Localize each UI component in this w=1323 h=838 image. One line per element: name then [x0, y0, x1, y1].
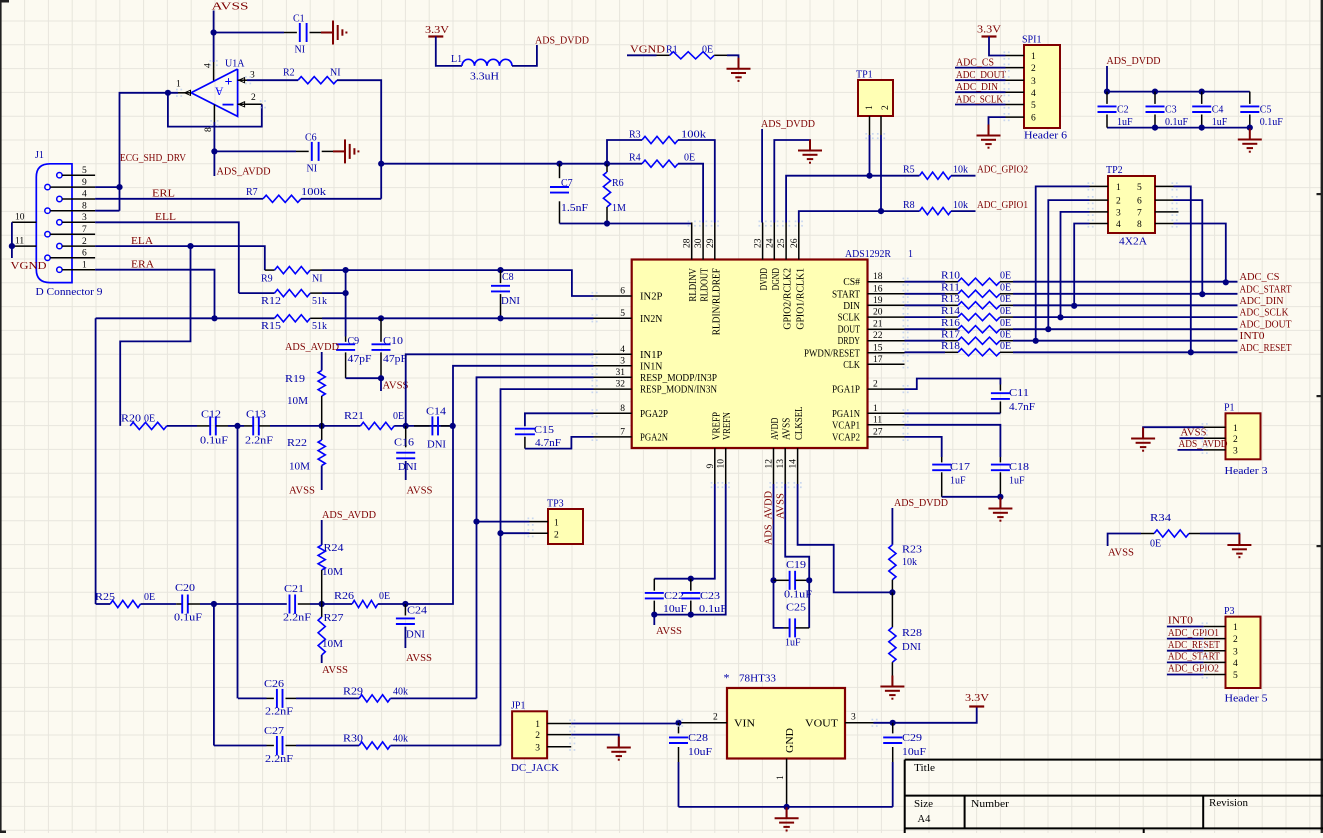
- vertical R15-left to R25: [95, 318, 97, 604]
- junction TP1 pin1: [866, 173, 872, 179]
- SPI1 pin 5: [1006, 104, 1025, 106]
- resistor R1 (0E to ground): [657, 54, 670, 56]
- junction C24: [402, 601, 408, 607]
- P1 pin 3: [1204, 449, 1226, 451]
- op-amp U1A: [191, 69, 238, 116]
- wire R4 to IC pin 30: [678, 164, 703, 223]
- J1 pin 4: [57, 196, 62, 201]
- svg-text:1: 1: [554, 519, 559, 529]
- svg-text:10uF: 10uF: [663, 604, 688, 615]
- svg-text:5: 5: [1233, 671, 1238, 681]
- svg-text:ADC_GPIO2: ADC_GPIO2: [1168, 664, 1219, 675]
- wire R3 to IC pin 29: [678, 140, 715, 223]
- wire pin8 to ADS_AVDD: [213, 122, 215, 176]
- svg-text:ADC_CS: ADC_CS: [1240, 272, 1280, 283]
- wire op-amp +in to R2: [247, 79, 298, 81]
- svg-text:AVSS: AVSS: [322, 665, 348, 676]
- TP2 pin 5: [1155, 185, 1174, 187]
- svg-text:31: 31: [616, 368, 626, 378]
- svg-text:2: 2: [1233, 435, 1238, 445]
- svg-text:START: START: [832, 289, 860, 300]
- svg-text:R26: R26: [334, 591, 354, 602]
- resistor R28 vertical: [891, 592, 893, 627]
- junction R6 bottom: [604, 220, 610, 226]
- svg-text:INT0: INT0: [1240, 331, 1265, 342]
- wire IN1N row: [453, 366, 594, 426]
- wire AVSS to P1 pin2: [1180, 437, 1204, 439]
- svg-text:R14: R14: [941, 306, 960, 317]
- svg-text:DOUT: DOUT: [838, 325, 860, 336]
- svg-text:P3: P3: [1224, 606, 1235, 617]
- svg-text:R18: R18: [941, 341, 960, 352]
- svg-text:0E: 0E: [1000, 271, 1011, 282]
- svg-text:PWDN/RESET: PWDN/RESET: [804, 348, 860, 359]
- svg-text:R19: R19: [285, 374, 305, 385]
- IC pin 8 PGA2P: [594, 412, 632, 414]
- svg-text:40k: 40k: [393, 687, 408, 698]
- wire C26 to R29: [296, 697, 359, 699]
- vertical branch to C27 row: [213, 604, 215, 746]
- svg-text:0E: 0E: [1000, 283, 1011, 294]
- J1 pin 1: [57, 267, 62, 272]
- svg-text:7: 7: [620, 427, 625, 437]
- svg-text:PGA2P: PGA2P: [640, 409, 668, 420]
- capacitor C28: [678, 723, 680, 734]
- svg-text:PGA2N: PGA2N: [640, 432, 668, 443]
- svg-text:ADC_GPIO1: ADC_GPIO1: [1168, 628, 1219, 639]
- wire ADC_START to P3 pin 4: [1167, 661, 1204, 663]
- svg-text:4: 4: [1116, 220, 1121, 230]
- capacitor C17: [941, 457, 943, 462]
- svg-text:3: 3: [1233, 647, 1238, 657]
- svg-text:ADC_CS: ADC_CS: [956, 58, 994, 69]
- svg-text:R22: R22: [287, 438, 307, 449]
- wire PGA2P to C15: [525, 413, 594, 426]
- svg-text:ADS1292R: ADS1292R: [845, 249, 891, 260]
- svg-text:5: 5: [82, 166, 87, 176]
- JP1 pin 2: [547, 734, 571, 736]
- capacitor C7: [559, 164, 561, 179]
- P3 pin 3: [1204, 650, 1226, 652]
- svg-text:0.1uF: 0.1uF: [784, 590, 813, 601]
- svg-text:22: 22: [873, 331, 883, 341]
- wire P1 pin1 to ground: [1143, 427, 1204, 438]
- svg-text:4: 4: [620, 345, 625, 355]
- wire ERA J1 pin1 to R15 line: [95, 270, 214, 319]
- JP1 pin 3: [547, 746, 571, 748]
- J1 pin 2: [57, 243, 62, 248]
- svg-text:1: 1: [1116, 183, 1121, 193]
- J1 pin 11: [12, 245, 36, 247]
- svg-text:AVSS: AVSS: [782, 418, 793, 440]
- svg-text:0E: 0E: [1000, 330, 1011, 341]
- junction ERA at R15 line: [211, 315, 217, 321]
- svg-text:SCLK: SCLK: [838, 313, 861, 324]
- connector J1 (D Connector 9): [36, 164, 72, 283]
- svg-text:2: 2: [82, 237, 87, 247]
- wire R4 row: [607, 163, 642, 165]
- resistor R30: [359, 742, 390, 749]
- svg-text:47pF: 47pF: [348, 354, 373, 365]
- wire ADC_DIN row: [1013, 304, 1238, 306]
- wire R1 to ground: [727, 55, 739, 68]
- svg-text:AVSS: AVSS: [212, 2, 249, 13]
- wire ADC_RESET to P3 pin 3: [1167, 650, 1204, 652]
- junction C18 ground: [997, 494, 1003, 500]
- IC pin 25 GPIO2/RCLK2: [785, 223, 787, 260]
- P3 pin 2: [1204, 638, 1226, 640]
- svg-text:ADC_DIN: ADC_DIN: [956, 82, 998, 93]
- svg-text:R25: R25: [95, 592, 115, 603]
- junction AVSS/C1: [211, 29, 217, 35]
- IC pin 9 VREFP: [714, 448, 716, 484]
- svg-text:2: 2: [535, 731, 540, 741]
- pin hotspot markers: [592, 292, 594, 294]
- junction R15/C10: [378, 315, 384, 321]
- wire gnd rail stem: [786, 807, 788, 818]
- svg-text:P1: P1: [1224, 403, 1235, 414]
- svg-text:VREFP: VREFP: [711, 412, 722, 440]
- IC pin 1 PGA1N: [868, 412, 905, 414]
- svg-text:2: 2: [713, 713, 718, 723]
- resistor R18: [905, 351, 946, 353]
- wire R29 to RESP_MODP: [390, 697, 476, 699]
- svg-text:0E: 0E: [379, 591, 390, 602]
- svg-text:2.2nF: 2.2nF: [283, 613, 312, 624]
- junction R19/R22: [319, 423, 325, 429]
- svg-text:0E: 0E: [393, 411, 404, 422]
- svg-text:ECG_SHD_DRV: ECG_SHD_DRV: [120, 153, 187, 164]
- J1 pin 10: [12, 221, 36, 223]
- resistor R29: [359, 695, 390, 702]
- svg-text:15: 15: [873, 343, 883, 353]
- svg-text:R27: R27: [324, 613, 344, 624]
- TP2 pin 1: [1090, 185, 1109, 187]
- svg-text:C20: C20: [175, 583, 195, 594]
- wire R20 to C12: [167, 425, 197, 427]
- wire TP2 pin5 to ADC_RESET: [1174, 186, 1191, 352]
- IC pin 32 RESP_MODN/IN3N: [594, 388, 632, 390]
- svg-text:3.3V: 3.3V: [425, 25, 450, 36]
- IC pin 23 DVDD: [762, 223, 764, 260]
- svg-text:13: 13: [776, 459, 786, 469]
- capacitor C18: [999, 457, 1001, 462]
- wire INT0 to P3 pin 1: [1167, 626, 1204, 628]
- svg-text:C21: C21: [284, 584, 304, 595]
- svg-text:C1: C1: [293, 14, 305, 25]
- wire TP2 pin1 to INT0: [1036, 186, 1090, 340]
- ground at C17/C18: [999, 498, 1001, 509]
- ground at P1: [1142, 428, 1144, 439]
- svg-text:DNI: DNI: [501, 296, 520, 307]
- svg-text:C14: C14: [426, 407, 446, 418]
- wire ELL-R12 row: [239, 292, 275, 294]
- svg-text:C23: C23: [700, 591, 720, 602]
- resistor R14: [905, 316, 946, 318]
- SPI1 pin 2: [1006, 67, 1025, 69]
- svg-text:C19: C19: [786, 560, 806, 571]
- svg-text:27: 27: [873, 427, 883, 437]
- resistor R26: [352, 600, 378, 607]
- svg-text:U1A: U1A: [225, 59, 245, 70]
- wire ADC_SCLK row: [1013, 316, 1238, 318]
- wire C21 to R26: [310, 603, 352, 605]
- wire AVSS to op-amp pin 4: [213, 11, 215, 63]
- svg-text:J1: J1: [35, 150, 44, 161]
- svg-text:5: 5: [1031, 101, 1036, 111]
- svg-text:ADS_AVDD: ADS_AVDD: [285, 342, 339, 353]
- svg-text:1: 1: [865, 105, 875, 110]
- 78HT33 pin 2 VIN: [679, 722, 727, 724]
- svg-text:ADC_DOUT: ADC_DOUT: [956, 70, 1006, 81]
- resistor R22 vertical: [321, 426, 323, 440]
- svg-text:AVSS: AVSS: [406, 653, 432, 664]
- wire R25 row: [96, 603, 111, 605]
- svg-text:51k: 51k: [312, 296, 327, 307]
- 78HT33 pin 3 VOUT: [845, 722, 874, 724]
- svg-text:10: 10: [15, 213, 25, 223]
- inductor L1: [462, 59, 512, 66]
- junction ADS_AVDD at C6: [211, 148, 217, 154]
- svg-text:AVSS: AVSS: [656, 626, 682, 637]
- svg-text:ADC_SCLK: ADC_SCLK: [1240, 308, 1290, 319]
- svg-text:SPI1: SPI1: [1022, 35, 1041, 46]
- svg-text:R24: R24: [324, 543, 344, 554]
- svg-text:R30: R30: [343, 734, 363, 745]
- svg-text:9: 9: [706, 464, 716, 469]
- svg-text:RLDINV: RLDINV: [688, 267, 699, 301]
- svg-text:1uF: 1uF: [1009, 476, 1025, 487]
- svg-text:C5: C5: [1260, 105, 1272, 116]
- ground at R34: [1238, 534, 1240, 545]
- wire ADC_DIN to SPI1 pin4: [955, 91, 1006, 93]
- svg-text:3.3uH: 3.3uH: [470, 72, 499, 83]
- IC pin 19 DIN: [868, 304, 905, 306]
- wire TP2 pin4 to ADC_DIN: [1074, 224, 1089, 306]
- svg-text:11: 11: [15, 236, 24, 246]
- svg-text:R6: R6: [612, 178, 624, 189]
- junction ECG_SHD_DRV at pin 9: [116, 184, 122, 190]
- svg-text:2: 2: [1116, 197, 1121, 207]
- 78HT33 pin 1 GND: [786, 759, 788, 807]
- svg-text:7: 7: [82, 225, 87, 235]
- svg-text:10M: 10M: [287, 396, 308, 407]
- SPI1 pin 3: [1006, 79, 1025, 81]
- svg-text:R11: R11: [941, 283, 960, 294]
- svg-text:1.5nF: 1.5nF: [561, 203, 589, 214]
- junction R24/R27: [319, 601, 325, 607]
- svg-text:IN1N: IN1N: [640, 361, 662, 372]
- svg-text:4: 4: [204, 63, 214, 68]
- svg-text:3: 3: [535, 743, 540, 753]
- svg-text:GPIO2/RCLK2: GPIO2/RCLK2: [783, 268, 794, 330]
- IC pin 26 GPIO1/RCLK1: [798, 223, 800, 260]
- junction C28/VIN: [675, 720, 681, 726]
- svg-text:NI: NI: [307, 164, 318, 175]
- resistor R17: [905, 340, 946, 342]
- svg-text:R5: R5: [903, 165, 915, 176]
- TP2 pin 8: [1155, 223, 1174, 225]
- svg-text:1: 1: [176, 80, 181, 90]
- svg-text:VCAP1: VCAP1: [832, 420, 860, 431]
- ground at cap bank: [1249, 129, 1251, 140]
- svg-text:4X2A: 4X2A: [1119, 237, 1148, 248]
- wire ground rail (regulator): [679, 806, 893, 808]
- wire C13 to R19/R22 node: [270, 425, 361, 427]
- svg-text:10uF: 10uF: [902, 747, 927, 758]
- J1 pin 6: [45, 255, 50, 260]
- svg-text:AVDD: AVDD: [770, 418, 781, 440]
- wire C20 to C21: [200, 603, 287, 605]
- resistor R34: [1141, 533, 1154, 535]
- wire R3 branch: [607, 140, 642, 164]
- resistor R11: [905, 293, 946, 295]
- svg-text:4.7nF: 4.7nF: [1009, 402, 1035, 413]
- svg-text:D Connector 9: D Connector 9: [36, 287, 103, 298]
- svg-text:5: 5: [620, 309, 625, 319]
- svg-text:1: 1: [82, 260, 87, 270]
- svg-text:CLKSEL: CLKSEL: [794, 406, 805, 440]
- svg-text:26: 26: [790, 238, 800, 248]
- svg-text:ADS_DVDD: ADS_DVDD: [535, 36, 589, 47]
- resistor R24 vertical: [321, 520, 323, 545]
- IC pin 20 SCLK: [868, 316, 905, 318]
- wire feedback pin2 to output: [168, 93, 262, 127]
- svg-text:3: 3: [82, 213, 87, 223]
- capacitor C13: [244, 425, 253, 427]
- svg-text:R23: R23: [902, 545, 922, 556]
- svg-text:R8: R8: [903, 200, 915, 211]
- wire ADS_DVDD rail: [1107, 66, 1250, 92]
- junction R12/C9 rail: [343, 290, 349, 296]
- capacitor C2: [1106, 92, 1108, 104]
- svg-text:0.1uF: 0.1uF: [174, 613, 203, 624]
- svg-text:ADS_AVDD: ADS_AVDD: [764, 491, 775, 545]
- svg-text:3: 3: [1116, 209, 1121, 219]
- op-amp pin 8 stub: [213, 105, 215, 123]
- svg-text:0.1uF: 0.1uF: [200, 436, 229, 447]
- wire RESP_MODN row: [501, 389, 594, 745]
- wire cap bank bottom rail: [1107, 127, 1250, 129]
- resistor R4: [642, 160, 678, 167]
- svg-text:DNI: DNI: [427, 440, 446, 451]
- svg-text:R28: R28: [902, 628, 922, 639]
- op-amp pin 1 (out) stub: [178, 92, 191, 94]
- svg-text:23: 23: [754, 238, 764, 248]
- wire 3.3V to SPI1 pin1: [989, 37, 1006, 56]
- svg-text:2: 2: [881, 105, 891, 110]
- svg-text:6: 6: [1031, 114, 1036, 124]
- svg-text:6: 6: [1137, 197, 1142, 207]
- JP1 pin 1: [547, 723, 571, 725]
- svg-text:1uF: 1uF: [785, 638, 801, 649]
- svg-text:3.3V: 3.3V: [977, 25, 1002, 36]
- svg-text:DNI: DNI: [398, 462, 417, 473]
- svg-text:2: 2: [251, 93, 256, 103]
- svg-text:C6: C6: [305, 133, 317, 144]
- svg-text:C7: C7: [561, 178, 573, 189]
- svg-text:7: 7: [1137, 209, 1142, 219]
- IC U? ADS1292R body: [632, 260, 868, 449]
- svg-text:10: 10: [717, 459, 727, 469]
- svg-text:0.1uF: 0.1uF: [1165, 117, 1189, 128]
- svg-text:1uF: 1uF: [1212, 117, 1228, 128]
- svg-text:3: 3: [1031, 77, 1036, 87]
- ground (rotated) at C6: [333, 150, 345, 152]
- svg-text:Header 3: Header 3: [1225, 466, 1268, 477]
- svg-text:R20: R20: [121, 414, 141, 425]
- svg-text:10k: 10k: [902, 557, 917, 568]
- wire AVDD rail: [774, 484, 784, 628]
- svg-text:C15: C15: [534, 425, 554, 436]
- wire JP1 pin2 to ground: [571, 735, 619, 748]
- svg-text:4: 4: [1233, 659, 1238, 669]
- capacitor C21: [289, 595, 291, 614]
- svg-text:10M: 10M: [289, 462, 310, 473]
- capacitor C4: [1199, 89, 1205, 95]
- svg-text:ADS_DVDD: ADS_DVDD: [761, 119, 815, 130]
- svg-text:20: 20: [873, 308, 883, 318]
- svg-text:VIN: VIN: [734, 718, 755, 729]
- svg-text:8: 8: [620, 404, 625, 414]
- svg-text:C24: C24: [407, 606, 427, 617]
- capacitor C5: [1249, 92, 1251, 104]
- svg-text:17: 17: [873, 355, 883, 365]
- svg-text:4: 4: [82, 190, 87, 200]
- wire C27 row: [214, 745, 267, 747]
- IC pin 13 AVSS: [784, 448, 786, 484]
- svg-text:1: 1: [1031, 52, 1036, 62]
- svg-text:9: 9: [82, 178, 87, 188]
- junction R2/R7 vertical to main wire: [378, 161, 384, 167]
- svg-text:C11: C11: [1009, 388, 1029, 399]
- capacitor C9: [345, 337, 347, 342]
- svg-text:21: 21: [873, 320, 883, 330]
- svg-text:PGA1N: PGA1N: [832, 409, 860, 420]
- svg-text:C26: C26: [264, 679, 284, 690]
- svg-text:IN1P: IN1P: [640, 350, 663, 361]
- svg-text:AVSS: AVSS: [407, 486, 433, 497]
- svg-text:4: 4: [1031, 89, 1036, 99]
- capacitor C29: [892, 723, 894, 734]
- svg-text:100k: 100k: [301, 187, 326, 198]
- wire C9/C10 bottoms AVSS: [346, 378, 381, 391]
- svg-text:C18: C18: [1009, 462, 1029, 473]
- svg-text:TP1: TP1: [856, 70, 873, 81]
- svg-text:Header 5: Header 5: [1225, 694, 1268, 705]
- svg-text:RESP_MODP/IN3P: RESP_MODP/IN3P: [640, 373, 717, 384]
- svg-text:ADC_DIN: ADC_DIN: [1240, 296, 1284, 307]
- svg-text:*: *: [724, 671, 730, 685]
- wire IC pin 24 DGND to ground: [774, 140, 810, 223]
- svg-text:11: 11: [873, 415, 882, 425]
- J1 pin 8: [45, 208, 50, 213]
- wire C27 to R30: [296, 745, 359, 747]
- wire R2 right / vertical to R7: [337, 80, 381, 199]
- junction C10 bottom: [378, 375, 384, 381]
- svg-text:PGA1P: PGA1P: [832, 385, 860, 396]
- wire TP2 pin2 to ADC_DOUT: [1048, 200, 1089, 329]
- svg-text:1: 1: [1233, 424, 1238, 434]
- SPI1 pin 1: [1006, 55, 1025, 57]
- J1 pin 9: [45, 184, 50, 189]
- P3 pin 1: [1204, 626, 1226, 628]
- svg-text:8: 8: [1137, 220, 1142, 230]
- wire L1 to ADS_DVDD: [512, 45, 537, 66]
- capacitor C20: [176, 603, 182, 605]
- wire C6 left: [214, 150, 296, 152]
- wire AVSS rail pin13: [785, 484, 809, 580]
